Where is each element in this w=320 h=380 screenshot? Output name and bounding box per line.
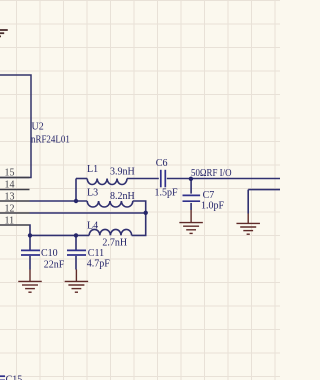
svg-text:L3: L3	[87, 187, 98, 198]
svg-text:13: 13	[5, 192, 15, 203]
svg-text:15: 15	[5, 168, 15, 179]
svg-text:4.7pF: 4.7pF	[87, 259, 111, 270]
svg-text:C7: C7	[203, 190, 215, 201]
svg-text:12: 12	[5, 204, 15, 215]
svg-text:C10: C10	[41, 248, 58, 259]
svg-text:C11: C11	[88, 248, 104, 259]
svg-text:C6: C6	[156, 158, 168, 169]
svg-text:8.2nH: 8.2nH	[110, 191, 135, 202]
svg-text:U2: U2	[32, 122, 44, 133]
svg-text:nRF24L01: nRF24L01	[31, 134, 70, 145]
svg-text:L1: L1	[87, 164, 98, 175]
svg-text:L4: L4	[87, 221, 98, 232]
svg-text:11: 11	[5, 216, 15, 227]
svg-text:C15: C15	[6, 374, 23, 380]
svg-text:3.9nH: 3.9nH	[110, 167, 135, 178]
svg-text:14: 14	[5, 180, 15, 191]
svg-text:2.7nH: 2.7nH	[102, 237, 127, 248]
svg-text:1.0pF: 1.0pF	[201, 201, 225, 212]
svg-text:22nF: 22nF	[44, 259, 65, 270]
svg-text:50ΩRF I/O: 50ΩRF I/O	[191, 168, 232, 179]
svg-text:1.5pF: 1.5pF	[155, 187, 179, 198]
